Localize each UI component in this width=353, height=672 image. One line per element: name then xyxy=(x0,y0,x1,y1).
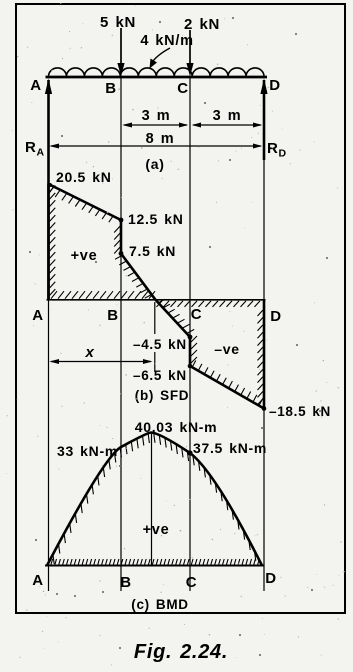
svg-text:20.5 kN: 20.5 kN xyxy=(56,169,112,185)
svg-text:4 kN/m: 4 kN/m xyxy=(140,33,193,49)
svg-text:8 m: 8 m xyxy=(146,131,175,147)
hatch above baseline left of crossing xyxy=(51,291,57,299)
dot 7.5 point xyxy=(119,251,124,256)
dimension x xyxy=(51,361,151,363)
svg-text:A: A xyxy=(32,307,44,324)
beam AD xyxy=(46,76,268,79)
svg-text:B: B xyxy=(120,574,132,591)
hatch below slope B-zero xyxy=(115,256,122,260)
SFD baseline A-D xyxy=(47,299,266,301)
hatch right of slope zero-C xyxy=(158,299,165,303)
BMD baseline A-D xyxy=(45,565,264,567)
svg-text:+ve: +ve xyxy=(143,522,170,538)
svg-text:3 m: 3 m xyxy=(213,108,242,124)
svg-text:A: A xyxy=(30,77,42,94)
hatch left of D edge xyxy=(258,310,264,316)
grid line A lower xyxy=(48,300,50,591)
dot -6.5 point xyxy=(188,364,193,369)
grid line C xyxy=(189,77,191,591)
grid line B xyxy=(120,77,122,591)
svg-text:Fig. 2.24.: Fig. 2.24. xyxy=(134,641,228,663)
tick line at zero crossing xyxy=(154,302,156,334)
svg-text:+ve: +ve xyxy=(71,248,98,264)
hatch under BMD curve xyxy=(53,555,54,564)
support line D / reaction arrow xyxy=(263,80,266,160)
svg-text:40.03 kN-m: 40.03 kN-m xyxy=(135,419,218,435)
hatch below baseline right of crossing xyxy=(157,301,163,307)
dot 20.5 vertex xyxy=(48,183,52,187)
peak ordinate line xyxy=(151,434,153,565)
svg-text:C: C xyxy=(186,574,198,591)
svg-text:3 m: 3 m xyxy=(142,108,171,124)
hatch below top slope A-B xyxy=(49,188,54,195)
hatch left of B drop xyxy=(114,226,120,233)
dot 37.5 point at C xyxy=(187,450,192,455)
svg-text:C: C xyxy=(177,80,189,97)
hatch above slope C-D xyxy=(192,361,196,368)
dimension 8 m (A-D) xyxy=(51,145,261,147)
load arrow 2 kN at C xyxy=(189,30,191,66)
svg-text:D: D xyxy=(265,570,277,587)
dot 12.5 point xyxy=(119,218,124,223)
svg-text:12.5 kN: 12.5 kN xyxy=(128,211,184,227)
svg-text:B: B xyxy=(107,307,119,324)
svg-text:(b) SFD: (b) SFD xyxy=(135,388,190,403)
leader arrow to UDL xyxy=(152,48,171,63)
load arrow 5 kN at B xyxy=(120,28,122,66)
dot -18.5 point xyxy=(262,406,267,411)
svg-text:D: D xyxy=(270,308,282,325)
dot -4.5 point xyxy=(188,335,193,340)
svg-text:(c) BMD: (c) BMD xyxy=(131,597,189,612)
svg-text:5 kN: 5 kN xyxy=(100,14,136,31)
hatch right of A edge xyxy=(49,186,55,193)
svg-text:(a): (a) xyxy=(145,156,164,172)
hatch right of C drop xyxy=(191,336,197,342)
svg-text:2 kN: 2 kN xyxy=(184,16,220,33)
svg-text:D: D xyxy=(269,77,281,94)
svg-text:33 kN-m: 33 kN-m xyxy=(57,443,118,459)
svg-text:–ve: –ve xyxy=(214,341,239,357)
svg-text:C: C xyxy=(191,306,203,323)
UDL coils 4 kN/m xyxy=(49,68,265,77)
svg-text:–6.5 kN: –6.5 kN xyxy=(133,368,187,383)
scan speckles (noise) xyxy=(224,18,225,19)
svg-text:x: x xyxy=(84,344,94,361)
support line A / reaction arrow xyxy=(47,80,50,300)
svg-text:–4.5 kN: –4.5 kN xyxy=(133,337,187,352)
svg-text:7.5 kN: 7.5 kN xyxy=(129,243,176,259)
BMD curve xyxy=(47,433,262,566)
dimension 3 m (B-C) xyxy=(124,124,187,126)
dimension 3 m (C-D) xyxy=(193,124,261,126)
grid line D lower xyxy=(263,160,265,591)
svg-text:B: B xyxy=(105,80,117,97)
svg-text:37.5 kN-m: 37.5 kN-m xyxy=(193,440,267,456)
SFD outline xyxy=(49,184,265,409)
hatch above BMD baseline xyxy=(51,559,53,565)
svg-text:A: A xyxy=(32,572,44,589)
